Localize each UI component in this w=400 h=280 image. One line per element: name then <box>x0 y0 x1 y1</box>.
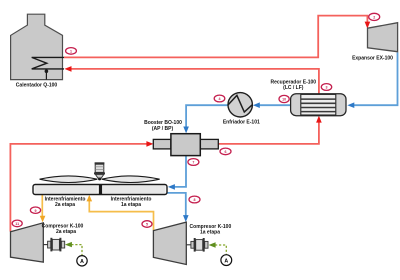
expander EX-100 <box>368 23 398 52</box>
fan hub dot <box>98 177 101 180</box>
stream tag 2 (expander inlet) <box>369 13 380 20</box>
heater coil <box>32 57 64 69</box>
fan motor <box>94 162 105 178</box>
svg-text:10: 10 <box>282 98 286 102</box>
arrow into expander <box>365 22 371 29</box>
stream tag 4 (cooler inlet) <box>214 95 225 102</box>
svg-text:(LC / LF): (LC / LF) <box>283 85 304 91</box>
motor circle A (right) <box>221 255 232 266</box>
arrow into recuperator bottom <box>316 116 322 123</box>
arrow into intercooler left section (yellow up) <box>87 195 93 202</box>
svg-text:5: 5 <box>146 223 148 227</box>
svg-text:(AP / BP): (AP / BP) <box>152 126 174 132</box>
arrow into compressor1 top <box>183 215 189 222</box>
wire stream compressor2 discharge to booster (red) <box>10 144 148 232</box>
compressor1 shaft and coupling <box>186 238 208 252</box>
svg-text:9: 9 <box>35 209 37 213</box>
wire stream cooler to booster top (blue) <box>186 105 228 128</box>
recuperator E-100 shell <box>291 94 346 116</box>
stream tag 9 (intercooler2 outlet) <box>30 207 40 213</box>
cooler E-101 <box>228 93 252 117</box>
wire stream recuperator top to furnace (red) <box>69 69 319 94</box>
wire stream booster bottom to intercooler 1 (blue) <box>174 156 187 187</box>
svg-text:Enfriador E-101: Enfriador E-101 <box>223 120 260 126</box>
compressor K-100 1a etapa <box>153 222 186 264</box>
svg-text:2: 2 <box>373 16 375 20</box>
compressor K-100 2a etapa <box>11 223 44 262</box>
arrow into compressor2 top (yellow down) <box>40 216 46 223</box>
svg-text:11: 11 <box>15 222 19 226</box>
arrow into cooler <box>253 102 260 108</box>
wire stream expander outlet to recuperator right (blue) <box>354 53 398 106</box>
stream tag 10 (recuperator left) <box>279 95 289 102</box>
green arrow into motor (left compressor) <box>65 242 72 247</box>
svg-text:2a etapa: 2a etapa <box>55 202 75 208</box>
motor circle A (left) <box>77 256 87 266</box>
fan blade left <box>40 176 98 183</box>
svg-text:Calentador Q-100: Calentador Q-100 <box>16 82 58 88</box>
arrow into booster left <box>146 141 153 147</box>
stream tag 5 (compressor1 discharge) <box>142 221 152 228</box>
svg-text:7: 7 <box>192 161 194 165</box>
heater fuel stem and node dot <box>45 69 49 79</box>
wire stream intercooler 2 to compressor2 suction (yellow) <box>41 195 43 217</box>
svg-text:1: 1 <box>70 50 72 54</box>
svg-text:6: 6 <box>225 150 227 154</box>
energy stream motor A to compressor1 (green dashed) <box>215 245 226 254</box>
svg-text:4: 4 <box>219 97 221 101</box>
heater furnace Calentador Q-100 <box>11 14 63 79</box>
booster BO-100 <box>153 134 218 156</box>
wire stream recuperator left to cooler (blue) <box>260 104 292 106</box>
svg-text:A: A <box>80 259 84 265</box>
wire stream intercooler 1 to compressor1 suction (blue) <box>167 193 186 217</box>
stream tag 8 (compressor1 suction) <box>189 196 200 203</box>
svg-text:3: 3 <box>326 86 328 90</box>
wire stream compressor1 discharge to intercooler 2 (yellow) <box>89 201 153 231</box>
svg-text:1a etapa: 1a etapa <box>121 202 141 208</box>
energy stream motor A to compressor2 (green dashed) <box>71 245 82 256</box>
svg-text:2a etapa: 2a etapa <box>56 229 76 235</box>
compressor2 shaft and coupling <box>43 238 64 252</box>
svg-text:1a etapa: 1a etapa <box>200 229 220 235</box>
svg-text:A: A <box>224 258 228 264</box>
stream tag 3 (recuperator top) <box>321 84 331 91</box>
stream tag 7 (booster bottom) <box>188 159 199 166</box>
arrow into intercooler right end <box>168 184 175 190</box>
svg-text:8: 8 <box>194 198 196 202</box>
green arrow into motor (right compressor) <box>209 242 216 247</box>
fan blade right <box>102 176 160 183</box>
air cooler bank (intercoolers) <box>33 185 167 195</box>
arrow into furnace <box>64 66 71 72</box>
stream tag 6 (booster outlet) <box>220 148 231 155</box>
wire stream furnace outlet to expander (red) <box>64 16 367 58</box>
svg-text:Expansor EX-100: Expansor EX-100 <box>352 55 393 61</box>
stream tag 11 (compressor2 discharge) <box>12 220 22 227</box>
wire stream booster outlet to recuperator bottom (red) <box>218 120 319 144</box>
arrow into recuperator right <box>347 102 354 108</box>
arrow into booster top <box>183 127 189 134</box>
stream tag 1 (furnace outlet) <box>66 48 77 55</box>
